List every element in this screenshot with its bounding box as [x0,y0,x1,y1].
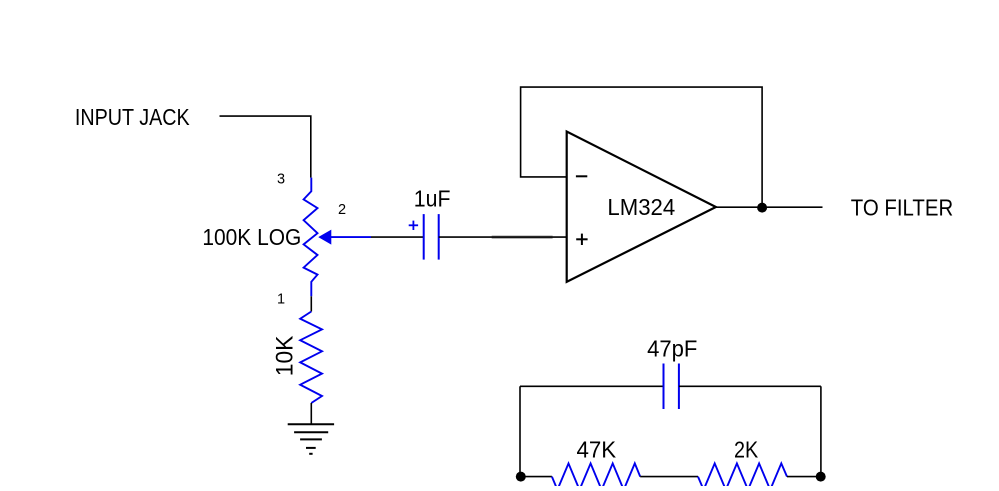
capacitor C2 47pF plates [664,364,679,410]
wire: capacitor C2 to right branch [679,385,821,387]
wire: feedback loop output to inverting input [521,87,763,207]
wire: capacitor to op-amp + input [439,236,567,238]
svg-text:10K: 10K [272,336,299,377]
capacitor C1 1uF plates [424,214,439,260]
op-amp U1 triangle [567,132,716,282]
svg-text:47pF: 47pF [647,335,697,361]
op-amp non-inverting input plus sign [576,234,587,245]
wire: 2K to right node [787,476,821,478]
capacitor C1 polarity plus [409,221,418,230]
svg-text:TO FILTER: TO FILTER [851,194,953,220]
svg-text:INPUT JACK: INPUT JACK [75,104,190,130]
net highlight segment on + input wire [492,236,553,239]
node: output junction dot [757,203,767,213]
wire: op-amp output [716,206,823,208]
svg-text:2K: 2K [734,437,759,463]
potentiometer R1 100K LOG body [304,178,318,297]
node: right junction dot [816,472,826,482]
svg-text:100K LOG: 100K LOG [202,224,301,250]
wire: left node to 47K [521,476,552,478]
svg-text:1uF: 1uF [414,186,451,212]
wire: pot pin 1 to resistor 10K [310,296,312,311]
ground [288,424,334,454]
resistor R2 10K [300,312,322,404]
node: left junction dot [516,472,526,482]
pot wiper arrow and blue wiper lead [319,231,371,244]
wire: left vertical branch [519,386,521,476]
svg-text:1: 1 [277,292,285,308]
resistor R3 47K [552,463,640,489]
wire: input jack to pot pin 3 [220,116,311,178]
op-amp inverting input minus sign [576,175,587,177]
wire: 47K to 2K [640,476,698,478]
wire: wiper to capacitor C1 [371,236,424,238]
wire: top branch to capacitor C2 [520,385,664,387]
svg-text:3: 3 [277,171,285,187]
wire: right vertical branch [820,386,822,476]
wire: 10K to ground [310,403,312,424]
svg-text:47K: 47K [577,437,617,463]
svg-text:2: 2 [338,202,346,218]
svg-text:LM324: LM324 [607,194,675,220]
resistor R4 2K [698,463,787,489]
